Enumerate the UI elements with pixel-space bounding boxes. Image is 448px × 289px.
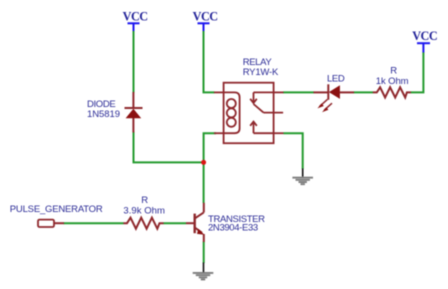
svg-text:LED: LED (327, 74, 345, 85)
svg-text:R: R (390, 66, 397, 77)
svg-text:PULSE_GENERATOR: PULSE_GENERATOR (10, 204, 103, 215)
svg-text:VCC: VCC (412, 29, 437, 43)
svg-text:3.9k Ohm: 3.9k Ohm (123, 206, 165, 217)
svg-text:1N5819: 1N5819 (87, 109, 120, 120)
svg-text:VCC: VCC (123, 10, 148, 24)
svg-text:VCC: VCC (193, 10, 218, 24)
svg-text:RY1W-K: RY1W-K (243, 67, 279, 78)
svg-text:R: R (141, 195, 148, 206)
svg-text:2N3904-E33: 2N3904-E33 (208, 223, 258, 234)
svg-text:1k Ohm: 1k Ohm (376, 76, 409, 87)
